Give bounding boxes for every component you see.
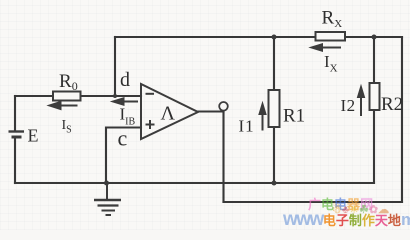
svg-text:Λ: Λ	[161, 103, 176, 125]
wire bottom ground rail	[15, 182, 374, 184]
svg-text:I2: I2	[341, 96, 356, 115]
wire right riser	[401, 37, 403, 202]
watermark row 2 (www + mascots + m)	[283, 209, 410, 231]
watermark row 1 (colored site name)	[308, 194, 373, 213]
svg-text:I1: I1	[239, 117, 255, 136]
arrow IX	[310, 44, 341, 52]
op-amp U1	[141, 84, 198, 139]
node dot ground junction	[104, 181, 109, 186]
output terminal circle	[219, 102, 228, 111]
wire top rail (node d to right riser)	[115, 36, 402, 38]
wire R2 top lead	[373, 37, 375, 83]
wire R1 bottom lead	[273, 127, 275, 183]
node dot R1 bottom	[272, 181, 277, 186]
wire non-inverting input c	[106, 128, 141, 184]
resistor RX	[316, 32, 346, 41]
svg-text:c: c	[118, 126, 128, 151]
wire inverting input (E/R0 to op-amp)	[15, 95, 141, 97]
svg-text:R2: R2	[381, 94, 403, 115]
node d junction	[113, 94, 117, 98]
node dot R1 top	[272, 35, 277, 40]
arrow IIB	[112, 98, 139, 106]
arrow I2	[357, 86, 364, 117]
svg-text:d: d	[120, 69, 130, 91]
wire R1 top lead	[273, 37, 275, 90]
wire R2 bottom lead	[373, 110, 375, 183]
wire lower output rail	[224, 201, 403, 203]
battery E	[9, 132, 25, 138]
resistor R1	[269, 90, 280, 127]
wire output riser	[222, 112, 224, 203]
arrow I1	[259, 103, 266, 131]
svg-text:IX: IX	[324, 52, 338, 75]
svg-text:IS: IS	[62, 118, 72, 136]
svg-text:IIB: IIB	[120, 105, 136, 128]
ground	[94, 183, 121, 215]
svg-text:R1: R1	[283, 106, 305, 127]
resistor R2	[370, 83, 380, 110]
node dot R2 top	[372, 35, 377, 40]
svg-text:R0: R0	[59, 71, 78, 93]
resistor R0	[53, 92, 81, 101]
wire left riser below battery	[14, 138, 16, 183]
svg-text:RX: RX	[322, 8, 343, 31]
wire d riser	[114, 37, 116, 96]
svg-text:E: E	[28, 126, 39, 146]
arrow IS	[48, 101, 78, 109]
wire op-amp output	[198, 110, 224, 112]
wire left riser above battery	[14, 96, 16, 130]
watermark mascot fill row	[332, 203, 389, 216]
